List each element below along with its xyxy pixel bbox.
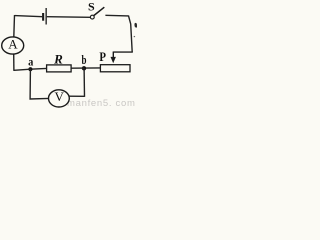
node a dot (28, 67, 32, 71)
svg-text:S: S (88, 0, 95, 14)
battery cell: long thin positive plate (46, 8, 47, 25)
svg-text:a: a (28, 55, 33, 69)
rheostat P body (100, 65, 130, 72)
wire: top horizontal, left corner to battery (15, 16, 43, 17)
svg-text:manfen5. com: manfen5. com (67, 98, 136, 109)
wire: left vertical down to ammeter (13, 15, 16, 37)
svg-text:A: A (8, 36, 18, 51)
wire: voltmeter right to riser corner (69, 95, 84, 97)
wire: battery+ to switch (47, 16, 91, 19)
rheostat wiper arrowhead (111, 57, 116, 63)
wire: jog left to wiper (113, 51, 133, 53)
switch S pivot circle (90, 15, 94, 19)
wire: node a to resistor R left lead (30, 67, 46, 70)
background (0, 0, 137, 109)
svg-text:b: b (82, 52, 87, 67)
rheostat wiper arrow stem (112, 52, 114, 59)
svg-text:P: P (99, 49, 106, 64)
wire: right vertical down (slight slant) (128, 15, 132, 52)
battery cell: short thick negative plate (42, 13, 44, 21)
wire: node a down to voltmeter row (30, 69, 48, 99)
voltmeter V (49, 90, 70, 107)
right edge artifact blob (134, 23, 137, 28)
wire: ammeter bottom to middle-left corner (13, 54, 15, 71)
wire: riser up to node b (83, 68, 85, 97)
wire: switch to top right corner (105, 14, 128, 17)
resistor R body (47, 65, 72, 72)
node b dot (82, 66, 86, 70)
wire: resistor R right lead to node b (71, 67, 84, 69)
wire: node b to rheostat left end (84, 67, 100, 69)
svg-text:V: V (55, 89, 65, 104)
switch S blade (open) (94, 7, 104, 15)
ammeter A (2, 37, 24, 54)
right edge tiny dot (134, 36, 135, 37)
svg-text:R: R (53, 52, 63, 67)
wire: left corner to node a (14, 69, 31, 70)
